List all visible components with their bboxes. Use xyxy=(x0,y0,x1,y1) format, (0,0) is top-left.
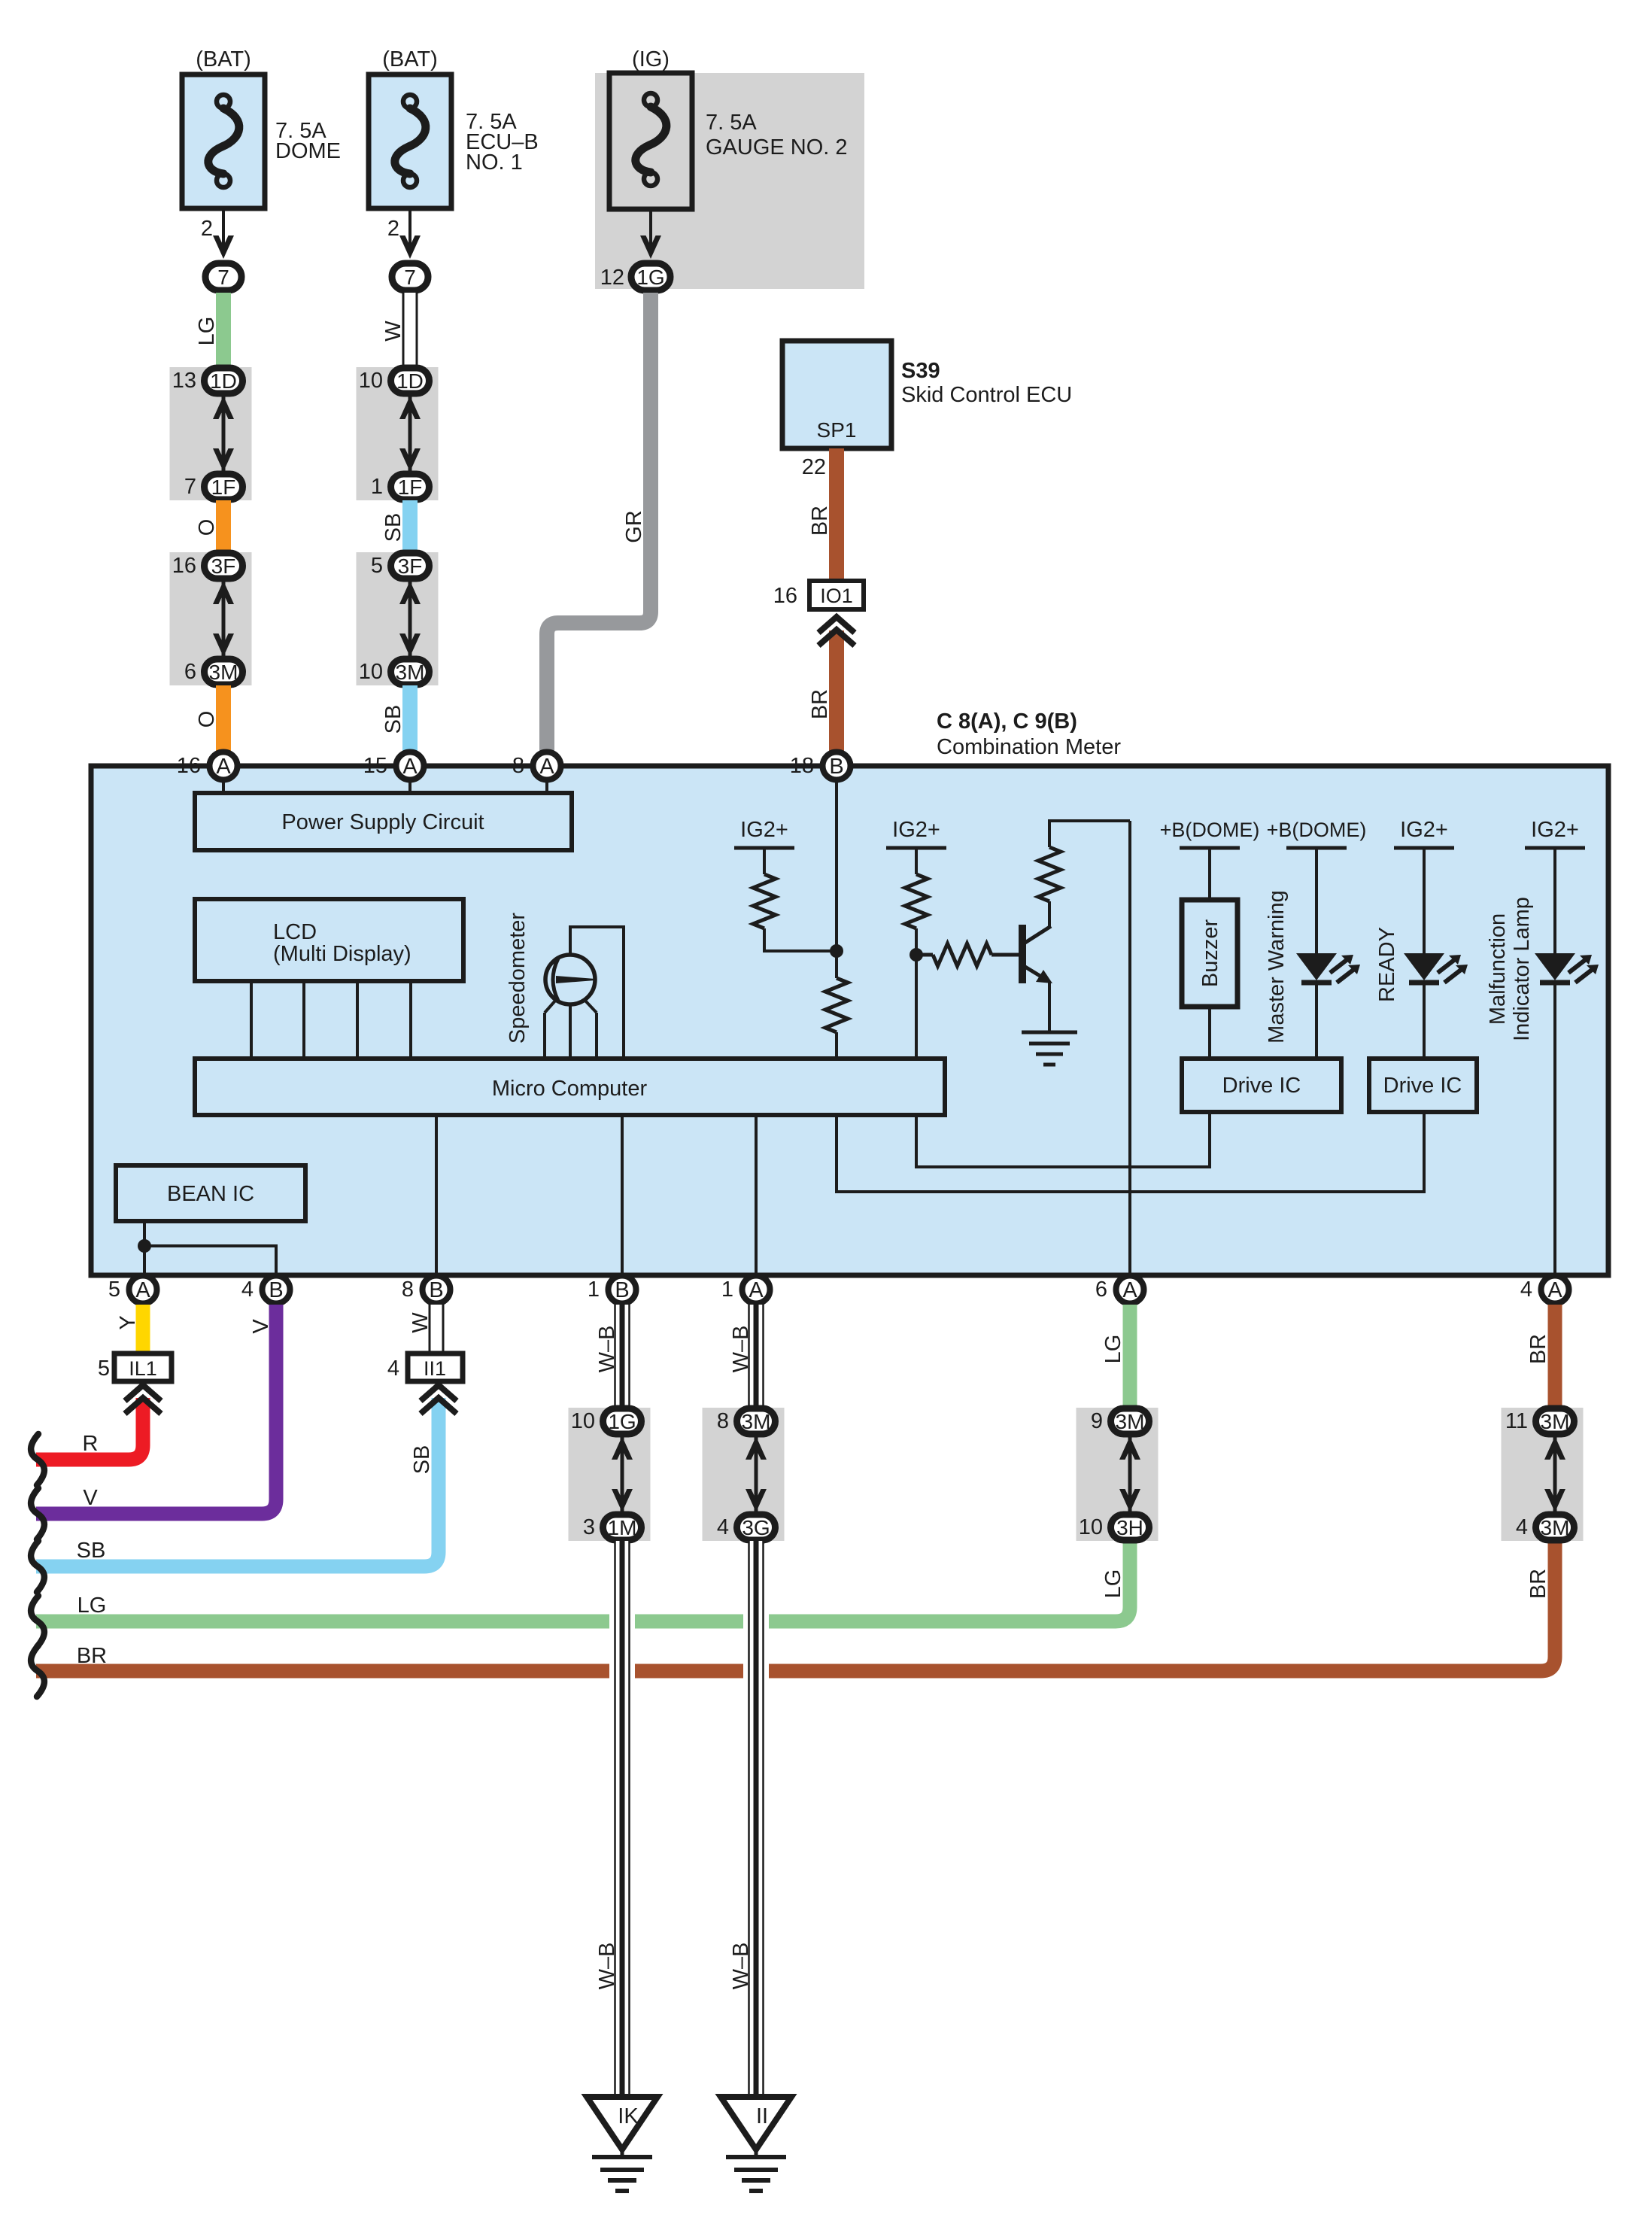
wire W-B 1M to ground IK xyxy=(615,1541,630,2097)
label C 8(A), C 9(B) Combination Meter xyxy=(937,709,1121,759)
label W xyxy=(408,1312,433,1333)
pin 16 A xyxy=(177,752,238,780)
fuse 7.5A DOME (BAT) xyxy=(182,47,341,208)
svg-text:C 8(A), C 9(B): C 8(A), C 9(B) xyxy=(937,709,1077,734)
svg-text:8: 8 xyxy=(512,754,524,778)
wire LG pin 6A to 3M xyxy=(1123,1305,1137,1408)
svg-text:16: 16 xyxy=(773,584,797,608)
svg-text:IK: IK xyxy=(618,2104,639,2128)
svg-text:3M: 3M xyxy=(396,661,425,684)
svg-text:BR: BR xyxy=(1526,1569,1550,1599)
svg-text:W: W xyxy=(381,321,405,342)
wire resistor to node xyxy=(915,928,918,955)
svg-text:A: A xyxy=(1122,1278,1137,1302)
svg-text:4: 4 xyxy=(1516,1515,1528,1539)
block S39 Skid Control ECU xyxy=(782,341,1072,448)
svg-text:10: 10 xyxy=(571,1409,595,1433)
wire micro computer to pin 1A xyxy=(755,1115,758,1275)
junction connector 3M/3H xyxy=(1077,1408,1159,1541)
svg-text:(Multi Display): (Multi Display) xyxy=(273,942,411,966)
label W-B xyxy=(595,1326,619,1373)
pin 15 A xyxy=(363,752,424,780)
wire LG horizontal xyxy=(36,1541,1130,1621)
svg-text:SB: SB xyxy=(381,513,405,542)
wire end LG xyxy=(31,1596,44,1647)
svg-text:READY: READY xyxy=(1375,927,1399,1002)
wire BEAN IC to pin 4B xyxy=(144,1246,276,1275)
svg-text:B: B xyxy=(829,755,843,779)
svg-text:1D: 1D xyxy=(396,369,424,393)
svg-text:3: 3 xyxy=(583,1515,595,1539)
chevron IL1 xyxy=(125,1385,161,1414)
svg-text:1M: 1M xyxy=(608,1516,637,1539)
svg-text:1: 1 xyxy=(588,1278,600,1302)
wire LCD to micro computer 1 xyxy=(250,981,253,1059)
wire micro computer to pin 8B xyxy=(435,1115,438,1275)
label O xyxy=(195,519,219,536)
svg-text:Y: Y xyxy=(116,1315,140,1329)
svg-text:10: 10 xyxy=(359,660,383,684)
svg-text:Malfunction: Malfunction xyxy=(1486,913,1510,1025)
svg-text:22: 22 xyxy=(802,455,826,479)
wire micro to drive IC2 return xyxy=(837,1112,1424,1192)
label R xyxy=(83,1432,99,1456)
svg-text:8: 8 xyxy=(402,1278,414,1302)
svg-text:4: 4 xyxy=(1520,1278,1532,1302)
LED master warning xyxy=(1296,953,1360,983)
wire node to micro computer xyxy=(915,955,918,1059)
svg-text:Skid Control ECU: Skid Control ECU xyxy=(901,383,1072,407)
svg-text:3M: 3M xyxy=(742,1410,771,1433)
wire LCD to micro computer 3 xyxy=(356,981,359,1059)
transistor Q1 xyxy=(1022,925,1052,983)
svg-text:3M: 3M xyxy=(1541,1516,1570,1539)
svg-text:1G: 1G xyxy=(636,266,664,289)
wire emitter to ground xyxy=(1048,982,1051,1032)
svg-text:7. 5A: 7. 5A xyxy=(706,111,757,135)
svg-text:Master Warning: Master Warning xyxy=(1265,890,1289,1044)
wire end R xyxy=(31,1434,44,1485)
wire pin 8A to power supply xyxy=(545,775,548,795)
label GR xyxy=(622,510,646,543)
svg-text:LG: LG xyxy=(1101,1569,1125,1599)
pin 6 A xyxy=(1095,1276,1144,1304)
wire pin 18B down xyxy=(835,775,838,951)
svg-text:16: 16 xyxy=(172,554,196,578)
connector oval 7 (ECU-B) xyxy=(392,263,428,290)
wire crossing gaps xyxy=(609,1610,769,1682)
label LG xyxy=(1101,1569,1125,1599)
wire collector rail to pin 6A xyxy=(1128,821,1131,1275)
svg-text:NO. 1: NO. 1 xyxy=(466,150,523,175)
svg-text:8: 8 xyxy=(717,1409,729,1433)
wire SB II1 to left xyxy=(36,1398,439,1566)
pin 1 B xyxy=(588,1276,636,1304)
label SB xyxy=(381,513,405,542)
svg-text:2: 2 xyxy=(201,217,213,241)
label BR (horizontal) xyxy=(77,1644,107,1668)
svg-text:A: A xyxy=(402,755,418,779)
node junction base xyxy=(910,948,923,962)
label Y xyxy=(116,1315,140,1329)
svg-text:B: B xyxy=(615,1278,629,1302)
svg-text:A: A xyxy=(1547,1278,1562,1302)
label BR xyxy=(808,689,832,719)
junction connector 3F/3M col1 xyxy=(170,552,252,685)
svg-text:15: 15 xyxy=(363,754,387,778)
ground transistor emitter xyxy=(1022,1032,1077,1065)
wire LCD to micro computer 4 xyxy=(409,981,412,1059)
label SB xyxy=(381,705,405,734)
svg-text:Power Supply Circuit: Power Supply Circuit xyxy=(281,810,484,834)
block LCD Multi Display xyxy=(195,899,463,981)
junction connector 1D/1F col2 xyxy=(357,367,439,500)
svg-text:V: V xyxy=(83,1486,98,1510)
svg-text:5: 5 xyxy=(98,1357,110,1381)
svg-text:18: 18 xyxy=(790,754,814,778)
svg-text:BEAN IC: BEAN IC xyxy=(167,1182,254,1206)
svg-text:3G: 3G xyxy=(742,1516,770,1539)
wire BR IO1 to pin 18B xyxy=(829,630,844,752)
label READY xyxy=(1375,927,1399,1002)
wire LCD to micro computer 2 xyxy=(302,981,305,1059)
svg-text:GAUGE NO. 2: GAUGE NO. 2 xyxy=(706,135,848,160)
svg-text:IG2+: IG2+ xyxy=(1400,818,1448,842)
svg-text:10: 10 xyxy=(1079,1515,1103,1539)
wire Y pin 5A to IL1 xyxy=(136,1305,150,1354)
resistor R1 xyxy=(753,874,776,928)
svg-text:BR: BR xyxy=(808,689,832,719)
block Drive IC 1 xyxy=(1182,1059,1341,1112)
svg-text:B: B xyxy=(429,1278,443,1302)
label V (horizontal) xyxy=(83,1486,98,1510)
block BEAN IC xyxy=(116,1165,305,1221)
label Speedometer xyxy=(506,913,530,1044)
svg-text:Indicator Lamp: Indicator Lamp xyxy=(1510,897,1534,1041)
LED READY xyxy=(1404,953,1468,983)
wire to buzzer xyxy=(1208,848,1211,900)
block Micro Computer xyxy=(195,1059,945,1115)
svg-text:Drive IC: Drive IC xyxy=(1383,1074,1462,1098)
label LG (horizontal) xyxy=(77,1594,107,1618)
svg-text:W–B: W–B xyxy=(729,1326,753,1373)
svg-text:1F: 1F xyxy=(211,475,236,499)
pin 4 B xyxy=(241,1276,290,1304)
resistor R3 xyxy=(905,874,928,928)
svg-text:9: 9 xyxy=(1091,1409,1103,1433)
wire micro computer to pin 1B xyxy=(621,1115,624,1275)
svg-text:BR: BR xyxy=(808,506,832,536)
svg-text:IO1: IO1 xyxy=(820,585,853,607)
svg-text:16: 16 xyxy=(177,754,201,778)
connector oval 1G xyxy=(600,263,670,290)
label LG xyxy=(195,317,219,346)
ground IK xyxy=(587,2097,657,2191)
svg-text:DOME: DOME xyxy=(275,139,341,163)
wire BEAN IC to pin 5A xyxy=(143,1221,146,1275)
wire SB 1F to 3F xyxy=(402,500,418,554)
wire BR S39 pin 22 to IO1 xyxy=(802,448,837,581)
fuse 7.5A ECU-B NO.1 (BAT) xyxy=(369,47,539,208)
wire R IL1 to left xyxy=(36,1398,143,1460)
wire BR horizontal xyxy=(36,1541,1555,1671)
fuse 7.5A GAUGE NO.2 (IG) xyxy=(609,47,848,209)
pin 4 A xyxy=(1520,1276,1569,1304)
svg-text:SB: SB xyxy=(381,705,405,734)
label SB (vertical) xyxy=(410,1445,434,1475)
svg-text:6: 6 xyxy=(184,660,196,684)
svg-text:BR: BR xyxy=(1526,1334,1550,1364)
wire pin 16A to power supply xyxy=(222,775,225,795)
block Power Supply Circuit xyxy=(195,793,572,850)
svg-text:Combination Meter: Combination Meter xyxy=(937,735,1121,759)
svg-text:+B(DOME): +B(DOME) xyxy=(1160,819,1260,841)
connector IO1 xyxy=(773,581,864,609)
svg-text:LCD: LCD xyxy=(273,920,317,944)
node junction 18B/R1 xyxy=(830,944,843,958)
svg-text:2: 2 xyxy=(387,217,399,241)
svg-text:W–B: W–B xyxy=(595,1326,619,1373)
pin 8 A xyxy=(512,752,561,780)
svg-text:3F: 3F xyxy=(211,554,236,578)
label V (vertical) xyxy=(249,1319,273,1334)
power rail +B(DOME) (2) xyxy=(1267,819,1367,848)
svg-text:Micro Computer: Micro Computer xyxy=(492,1077,648,1101)
wire GR 1G to pin 8A xyxy=(547,293,651,752)
svg-text:(IG): (IG) xyxy=(632,47,670,71)
svg-text:+B(DOME): +B(DOME) xyxy=(1267,819,1367,841)
block Drive IC 2 xyxy=(1369,1059,1477,1112)
wire fuse GAUGE to 1G xyxy=(640,209,661,259)
junction connector 3M/3G xyxy=(703,1408,785,1541)
svg-text:B: B xyxy=(269,1278,283,1302)
junction connector 3M/3M xyxy=(1502,1408,1584,1541)
svg-text:IG2+: IG2+ xyxy=(892,818,940,842)
svg-text:3H: 3H xyxy=(1116,1516,1143,1539)
svg-text:BR: BR xyxy=(77,1644,107,1668)
label W-B xyxy=(729,1326,753,1373)
wire V pin 4B to left xyxy=(36,1305,276,1514)
svg-text:GR: GR xyxy=(622,510,646,543)
wire end V xyxy=(31,1488,44,1539)
wire fuse DOME pin 2 xyxy=(201,208,234,259)
svg-text:7: 7 xyxy=(184,475,196,499)
power rail IG2+ (4) xyxy=(1525,818,1585,848)
wire micro to drive IC1 return xyxy=(916,1112,1210,1167)
wire LED to drive IC2 xyxy=(1423,982,1426,1059)
svg-text:Speedometer: Speedometer xyxy=(506,913,530,1044)
svg-text:A: A xyxy=(135,1278,150,1302)
power rail IG2+ (3) xyxy=(1394,818,1454,848)
svg-text:13: 13 xyxy=(172,369,196,393)
svg-text:1: 1 xyxy=(721,1278,733,1302)
pin 8 B xyxy=(402,1276,451,1304)
svg-text:5: 5 xyxy=(371,554,383,578)
label BR xyxy=(808,506,832,536)
combination meter block xyxy=(91,766,1608,1275)
svg-text:A: A xyxy=(539,755,554,779)
svg-text:W–B: W–B xyxy=(729,1943,753,1990)
junction connector 3F/3M col2 xyxy=(357,552,439,685)
wire IG2+ to resistor xyxy=(915,848,918,874)
wire collector resistor xyxy=(1038,821,1130,927)
svg-text:A: A xyxy=(749,1278,764,1302)
power rail +B(DOME) (1) xyxy=(1160,819,1260,848)
label Malfunction Indicator Lamp xyxy=(1486,897,1534,1041)
wire BR pin 4A to 3M xyxy=(1548,1305,1562,1408)
svg-text:O: O xyxy=(195,711,219,728)
junction connector 1G/1M xyxy=(569,1408,651,1541)
connector oval 7 (DOME) xyxy=(205,263,241,290)
label SB (horizontal) xyxy=(77,1539,106,1563)
svg-text:Buzzer: Buzzer xyxy=(1198,919,1222,988)
svg-text:3M: 3M xyxy=(1541,1410,1570,1433)
svg-text:5: 5 xyxy=(108,1278,120,1302)
label Master Warning xyxy=(1265,890,1289,1044)
svg-text:IL1: IL1 xyxy=(129,1357,157,1380)
svg-text:3F: 3F xyxy=(398,554,423,578)
svg-text:6: 6 xyxy=(1095,1278,1107,1302)
label W-B xyxy=(595,1943,619,1990)
speedometer symbol xyxy=(545,927,624,1059)
resistor R4 base xyxy=(916,943,1019,966)
wire end BR xyxy=(31,1645,44,1697)
resistor R2 xyxy=(825,951,848,1059)
wire pin 15A to power supply xyxy=(408,775,411,795)
wire buzzer to drive IC1 xyxy=(1208,1007,1211,1059)
svg-text:10: 10 xyxy=(359,369,383,393)
power rail IG2+ (1) xyxy=(734,818,794,848)
svg-text:4: 4 xyxy=(387,1357,399,1381)
svg-text:1G: 1G xyxy=(608,1410,636,1433)
svg-text:7: 7 xyxy=(217,266,229,289)
svg-text:1D: 1D xyxy=(210,369,237,393)
svg-text:7: 7 xyxy=(404,266,416,289)
svg-text:3M: 3M xyxy=(209,661,238,684)
svg-text:LG: LG xyxy=(77,1594,107,1618)
svg-text:(BAT): (BAT) xyxy=(196,47,251,71)
wire end SB xyxy=(31,1541,44,1592)
LED malfunction indicator lamp xyxy=(1535,953,1599,983)
svg-text:A: A xyxy=(216,755,231,779)
wire to LED master warning xyxy=(1315,848,1318,953)
svg-text:4: 4 xyxy=(717,1515,729,1539)
connector IL1 xyxy=(98,1354,172,1381)
wire O 1F to 3F xyxy=(216,500,231,554)
svg-text:IG2+: IG2+ xyxy=(1531,818,1579,842)
wire O 3M to pin 16A xyxy=(216,685,231,752)
wire LED to drive IC1 xyxy=(1315,982,1318,1059)
svg-text:SB: SB xyxy=(410,1445,434,1475)
svg-text:12: 12 xyxy=(600,266,624,290)
svg-text:3M: 3M xyxy=(1116,1410,1145,1433)
chevron IO1 xyxy=(818,617,855,646)
wire W-B 3G to ground II xyxy=(749,1541,764,2097)
svg-text:1: 1 xyxy=(371,475,383,499)
wire to LED ready xyxy=(1423,848,1426,953)
label W-B xyxy=(729,1943,753,1990)
power rail IG2+ (2) xyxy=(886,818,946,848)
wire resistor to node xyxy=(764,928,837,951)
svg-text:LG: LG xyxy=(195,317,219,346)
junction connector 1D/1F col1 xyxy=(170,367,252,500)
svg-text:SP1: SP1 xyxy=(817,418,857,442)
ground II xyxy=(721,2097,791,2191)
svg-text:IG2+: IG2+ xyxy=(740,818,788,842)
label W xyxy=(381,321,405,342)
chevron II1 xyxy=(421,1385,457,1414)
svg-text:II: II xyxy=(756,2104,768,2128)
wire SB 3M to pin 15A xyxy=(402,685,418,752)
wire W pin 8B to II1 xyxy=(429,1305,444,1353)
label O xyxy=(195,711,219,728)
wire W-B pin 1B to 1G xyxy=(615,1305,630,1408)
svg-text:1F: 1F xyxy=(398,475,423,499)
label LG xyxy=(1101,1335,1125,1364)
pin 5 A xyxy=(108,1276,157,1304)
wire W-B pin 1A to 3M xyxy=(749,1305,764,1408)
svg-text:O: O xyxy=(195,519,219,536)
label BR xyxy=(1526,1334,1550,1364)
wire W fuse to 1D xyxy=(402,293,418,370)
wire to LED MIL xyxy=(1553,848,1556,953)
svg-text:Drive IC: Drive IC xyxy=(1222,1074,1301,1098)
svg-text:LG: LG xyxy=(1101,1335,1125,1364)
wire LED MIL to pin 4A xyxy=(1553,982,1556,1275)
node junction BEAN IC xyxy=(138,1239,151,1253)
svg-text:W–B: W–B xyxy=(595,1943,619,1990)
pin 1 A xyxy=(721,1276,770,1304)
wire LG fuse to 1D xyxy=(216,293,231,370)
component Buzzer xyxy=(1182,900,1237,1007)
gray panel GAUGE NO.2 xyxy=(595,73,864,289)
svg-text:SB: SB xyxy=(77,1539,106,1563)
wire IG2+ to resistor xyxy=(763,848,766,874)
svg-text:11: 11 xyxy=(1505,1409,1528,1433)
wire drive IC1 bottom xyxy=(1208,1112,1211,1167)
svg-text:(BAT): (BAT) xyxy=(382,47,438,71)
svg-text:R: R xyxy=(83,1432,99,1456)
wire fuse ECU-B pin 2 xyxy=(387,208,421,259)
svg-text:W: W xyxy=(408,1312,433,1333)
label BR xyxy=(1526,1569,1550,1599)
svg-text:4: 4 xyxy=(241,1278,254,1302)
pin 18 B xyxy=(790,752,851,780)
svg-text:II1: II1 xyxy=(424,1357,446,1380)
svg-text:S39: S39 xyxy=(901,359,940,383)
connector II1 xyxy=(387,1354,463,1381)
svg-text:V: V xyxy=(249,1319,273,1334)
